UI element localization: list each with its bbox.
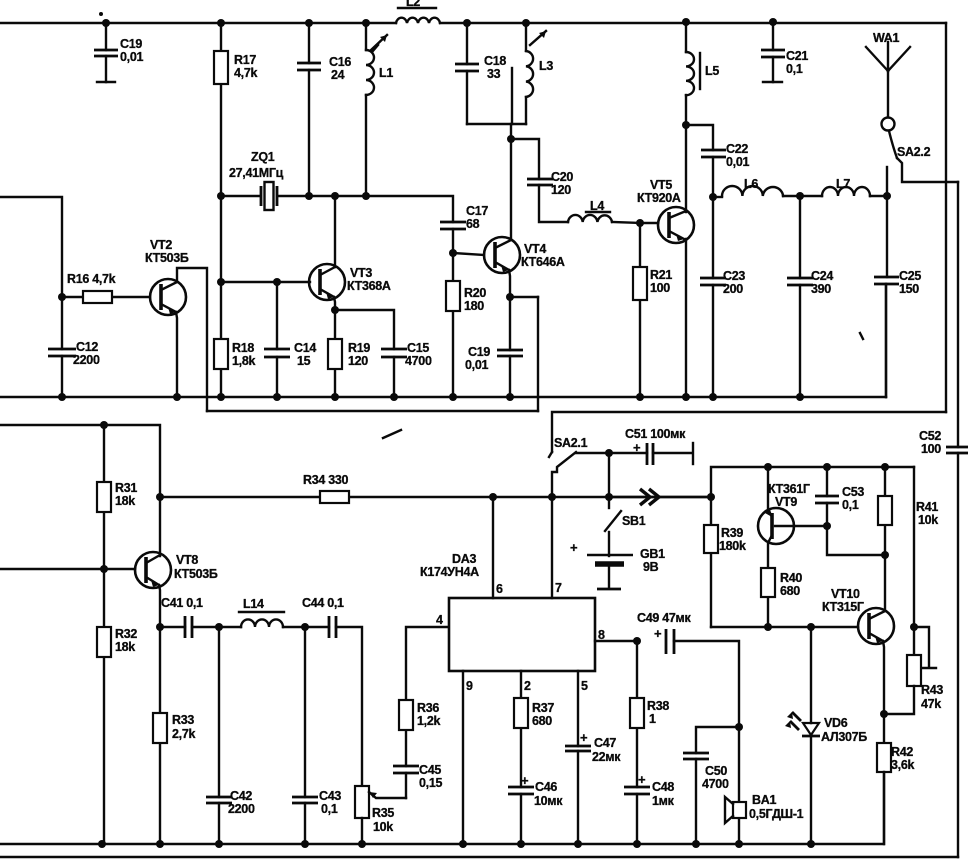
capacitor C23 (700, 197, 745, 397)
svg-text:C19: C19 (468, 345, 490, 359)
svg-text:R36: R36 (417, 701, 439, 715)
wire RX supply line y=497 (160, 496, 711, 498)
svg-text:150: 150 (899, 282, 919, 296)
svg-text:КТ361Г: КТ361Г (768, 482, 810, 496)
svg-text:4700: 4700 (405, 354, 432, 368)
svg-text:10мк: 10мк (534, 794, 563, 808)
node DA3 pin6 supply (489, 493, 497, 501)
svg-text:C16: C16 (329, 55, 351, 69)
svg-text:1,2k: 1,2k (417, 714, 440, 728)
resistor R41 10k (878, 467, 938, 555)
svg-text:10k: 10k (373, 820, 393, 834)
capacitor C22 (686, 125, 749, 197)
wire right RF rail vertical from top bus (945, 23, 947, 412)
node VD6 bottom (807, 840, 815, 848)
node L1 top (362, 19, 370, 27)
node R43 tap (910, 623, 918, 631)
svg-text:22мк: 22мк (592, 750, 621, 764)
node L1 bottom on crystal line (362, 192, 370, 200)
inductor L1 adjustable (366, 23, 393, 196)
svg-text:R41: R41 (916, 500, 938, 514)
wire base line of VT10 y=627 (711, 626, 858, 628)
transistor VT10 KT315G (822, 555, 894, 714)
resistor R32 (97, 569, 137, 844)
node L5 bottom C22 tee (682, 121, 690, 129)
svg-text:6: 6 (496, 582, 503, 596)
node amplifier rail column (707, 493, 715, 501)
node R21 bottom ground (636, 393, 644, 401)
capacitor C45 (393, 730, 442, 798)
resistor R18 (214, 282, 255, 397)
outer border bottom (0, 856, 958, 858)
transistor VT4 KT646A (484, 139, 565, 297)
svg-text:VT4: VT4 (524, 242, 546, 256)
resistor R38 1 (630, 641, 669, 787)
wire L6 to L7 (783, 195, 822, 197)
svg-text:R31: R31 (115, 481, 137, 495)
svg-text:C49 47мк: C49 47мк (637, 611, 691, 625)
node R17 top (217, 19, 225, 27)
wire C25 bottom to ground bus corner (885, 284, 887, 397)
svg-text:100: 100 (921, 442, 941, 456)
node C19 top (102, 19, 110, 27)
svg-text:680: 680 (532, 714, 552, 728)
wire left line to VT8 collector (0, 425, 160, 556)
svg-text:L5: L5 (705, 64, 719, 78)
svg-text:0,01: 0,01 (120, 50, 143, 64)
switch SA2.1 (549, 436, 588, 497)
wire left input to R16 (0, 197, 62, 297)
svg-text:К174УН4А: К174УН4А (420, 565, 479, 579)
wire L14 to C44 (283, 626, 329, 628)
svg-text:R40: R40 (780, 571, 802, 585)
capacitor C16 (297, 23, 351, 196)
svg-text:L6: L6 (744, 177, 758, 191)
svg-text:C51 100мк: C51 100мк (625, 427, 686, 441)
node SA2.1 output (548, 493, 556, 501)
node C50 bottom (692, 840, 700, 848)
capacitor C52 100 on right border (919, 182, 968, 857)
node C16 top (305, 19, 313, 27)
svg-text:R43: R43 (921, 683, 943, 697)
resistor R31 (97, 425, 137, 569)
svg-text:GB1: GB1 (640, 547, 665, 561)
node C46 bottom (517, 840, 525, 848)
svg-text:SB1: SB1 (622, 514, 646, 528)
node R31 top (100, 421, 108, 429)
node C14 top (273, 278, 281, 286)
pushbutton SB1 (605, 497, 646, 556)
inductor L4 (568, 199, 612, 222)
transistor VT9 KT361G pnp (758, 467, 827, 568)
transistor VT5 KT920A (637, 125, 694, 397)
svg-text:390: 390 (811, 282, 831, 296)
resistor R36 (399, 627, 449, 730)
common bus bottom y=844 (0, 772, 884, 844)
svg-text:C45: C45 (419, 763, 441, 777)
wire VT4 emitter return vertical x=538 (537, 297, 539, 411)
svg-text:2: 2 (524, 679, 531, 693)
svg-text:C19: C19 (120, 37, 142, 51)
svg-text:47k: 47k (921, 697, 941, 711)
svg-text:+: + (580, 730, 588, 745)
wire top supply bus left of L2 (0, 22, 396, 24)
svg-text:0,1: 0,1 (842, 498, 859, 512)
wire TX rail horizontal y=412 to SA2.1 feed (552, 412, 946, 452)
wire VT9 base node to VT10 collector (827, 526, 885, 555)
antenna WA1 (866, 31, 910, 117)
node R41 bottom VT10 collector (881, 551, 889, 559)
svg-text:33: 33 (487, 67, 501, 81)
node R38 top pin8 (633, 637, 641, 645)
node C19b bottom (506, 393, 514, 401)
svg-text:C20: C20 (551, 170, 573, 184)
pin 7 wire (551, 497, 553, 598)
svg-text:R18: R18 (232, 341, 254, 355)
node crystal line left (217, 192, 225, 200)
svg-text:C21: C21 (786, 49, 808, 63)
svg-text:C42: C42 (230, 789, 252, 803)
resistor R33 (153, 627, 195, 844)
resistor R42 3,6k (877, 714, 914, 844)
IC DA3 K174UN4A (420, 552, 595, 671)
wire VT4 collector up to C18 L3 node (510, 124, 512, 139)
svg-text:L14: L14 (243, 597, 264, 611)
svg-text:C47: C47 (594, 736, 616, 750)
svg-text:27,41МГц: 27,41МГц (229, 166, 284, 180)
node C42 bottom (215, 840, 223, 848)
resistor R40 680 (761, 568, 802, 627)
inductor L2 (396, 0, 440, 23)
wire VT2 collector up and to TX keying line (177, 268, 207, 411)
node C15 bottom (390, 393, 398, 401)
node VT5 emitter ground (682, 393, 690, 401)
svg-text:C24: C24 (811, 269, 833, 283)
node C53 top (823, 463, 831, 471)
svg-text:4: 4 (436, 613, 443, 627)
svg-text:КТ368А: КТ368А (347, 279, 391, 293)
svg-text:R38: R38 (647, 699, 669, 713)
wire stub beside L3 (511, 68, 513, 124)
capacitor C18 (455, 23, 506, 124)
capacitor C14 (264, 282, 316, 397)
node C43 top (301, 623, 309, 631)
svg-text:0,1: 0,1 (321, 802, 338, 816)
resistor R19 (328, 310, 370, 397)
svg-text:C22: C22 (726, 142, 748, 156)
svg-text:WA1: WA1 (873, 31, 900, 45)
svg-text:0,01: 0,01 (726, 155, 749, 169)
wire R18 node to VT3 base (221, 281, 310, 283)
node SB1 top (605, 493, 613, 501)
svg-text:L1: L1 (379, 66, 393, 80)
svg-text:10k: 10k (918, 513, 938, 527)
svg-text:КТ503Б: КТ503Б (145, 251, 189, 265)
wire crystal line to C17 (309, 196, 453, 222)
node C48 bottom (633, 840, 641, 848)
node VT2 emitter ground (173, 393, 181, 401)
svg-text:24: 24 (331, 68, 345, 82)
capacitor C19 near VT4 (465, 297, 523, 397)
node C21 top (769, 18, 777, 26)
svg-text:SA2.2: SA2.2 (897, 145, 931, 159)
svg-text:C50: C50 (705, 764, 727, 778)
inductor L6 (713, 177, 783, 197)
svg-text:0,01: 0,01 (465, 358, 488, 372)
svg-text:18k: 18k (115, 494, 135, 508)
wire C20 branch from VT4 collector (511, 139, 539, 179)
svg-text:0,5ГДШ-1: 0,5ГДШ-1 (749, 807, 804, 821)
node crystal line at C16 (305, 192, 313, 200)
wire VT3 emitter to C15 (335, 310, 394, 349)
stray speck mid (860, 333, 863, 339)
capacitor C19 top-left 0,01 (94, 23, 143, 82)
svg-text:R16 4,7k: R16 4,7k (67, 272, 116, 286)
wire R17 bottom to R18 (220, 196, 222, 282)
svg-text:4,7k: 4,7k (234, 66, 257, 80)
svg-text:68: 68 (466, 217, 480, 231)
svg-text:C53: C53 (842, 485, 864, 499)
wire R43 column (913, 467, 915, 655)
svg-text:КТ503Б: КТ503Б (174, 567, 218, 581)
svg-text:R21: R21 (650, 268, 672, 282)
pin 6 wire (492, 497, 494, 598)
svg-text:1,8k: 1,8k (232, 354, 255, 368)
node R41 top (881, 463, 889, 471)
svg-text:C41 0,1: C41 0,1 (161, 596, 203, 610)
node R40 bottom (764, 623, 772, 631)
capacitor C17 (440, 204, 488, 253)
svg-text:2200: 2200 (73, 353, 100, 367)
capacitor C47 electrolytic on pin5 (565, 671, 621, 844)
svg-text:8: 8 (598, 628, 605, 642)
node R20 bottom (449, 393, 457, 401)
capacitor C41 0,1 (160, 596, 219, 638)
svg-text:180: 180 (464, 299, 484, 313)
capacitor C24 (787, 196, 833, 397)
resistor R16 4,7k (62, 272, 150, 303)
switch SA2.2 (887, 131, 958, 196)
svg-text:+: + (654, 626, 662, 641)
node R16 C12 (58, 293, 66, 301)
capacitor C20 (527, 170, 573, 222)
svg-text:ZQ1: ZQ1 (251, 150, 275, 164)
svg-text:C12: C12 (76, 340, 98, 354)
wire VT8 base line (0, 568, 135, 570)
svg-text:C25: C25 (899, 269, 921, 283)
svg-text:DA3: DA3 (452, 552, 476, 566)
wire base node to VT4 (453, 253, 484, 255)
capacitor C46 electrolytic (508, 773, 563, 844)
svg-text:VT10: VT10 (831, 587, 860, 601)
svg-text:VT3: VT3 (350, 266, 372, 280)
battery GB1 9V (570, 540, 665, 589)
svg-text:L2: L2 (406, 0, 420, 9)
svg-text:100: 100 (650, 281, 670, 295)
node R33 bottom (156, 840, 164, 848)
node base R31 R32 (100, 565, 108, 573)
inductor L14 with core (219, 597, 284, 627)
node C43 bottom (301, 840, 309, 848)
node C17 R20 VT4 base (449, 249, 457, 257)
node VT10 emitter R43 (880, 710, 888, 718)
capacitor C49 electrolytic 47mk (637, 611, 739, 727)
svg-text:КТ315Г: КТ315Г (822, 600, 864, 614)
svg-text:R35: R35 (372, 806, 394, 820)
node VT5 base R21 (636, 219, 644, 227)
svg-text:C23: C23 (723, 269, 745, 283)
capacitor C43 (292, 627, 341, 844)
node C50 BA1 tee (735, 723, 743, 731)
svg-text:R17: R17 (234, 53, 256, 67)
wire L4 to VT5 base (612, 222, 658, 223)
capacitor C51 electrolytic 100mk (576, 427, 693, 465)
node C14 bottom (273, 393, 281, 401)
node VT9 base C53 (823, 522, 831, 530)
svg-text:2,7k: 2,7k (172, 727, 195, 741)
svg-text:0,15: 0,15 (419, 776, 442, 790)
inductor L3 adjustable (526, 23, 553, 124)
svg-text:R32: R32 (115, 627, 137, 641)
svg-text:АЛ307Б: АЛ307Б (821, 730, 867, 744)
svg-text:2200: 2200 (228, 802, 255, 816)
resistor R21 (633, 223, 672, 397)
inductor L5 with core (686, 22, 719, 125)
svg-text:VD6: VD6 (824, 716, 848, 730)
node BA1 bottom (735, 840, 743, 848)
capacitor C50 4700 (683, 727, 739, 844)
node C47 bottom (574, 840, 582, 848)
node VT4 collector C20 tee (507, 135, 515, 143)
capacitor C42 (206, 627, 255, 844)
node VT8 emitter C41 tee (156, 623, 164, 631)
svg-text:+: + (638, 772, 646, 787)
svg-text:R37: R37 (532, 701, 554, 715)
svg-text:9В: 9В (643, 560, 659, 574)
capacitor C53 0,1 (815, 467, 864, 526)
crystal ZQ1 (222, 150, 309, 210)
svg-text:4700: 4700 (702, 777, 729, 791)
node C51 line SB1 column (605, 449, 613, 457)
potentiometer R35 10k (355, 786, 406, 844)
transistor VT2 KT503B (145, 238, 189, 315)
wire VT4 emitter branch to x538 (510, 296, 538, 298)
svg-text:C17: C17 (466, 204, 488, 218)
wire SB1 column from C51 line (608, 453, 610, 497)
resistor R20 (446, 253, 486, 397)
node L7 right antenna stub C25 (883, 192, 891, 200)
svg-text:1: 1 (649, 712, 656, 726)
svg-text:680: 680 (780, 584, 800, 598)
svg-text:C43: C43 (319, 789, 341, 803)
ground bus y=397 (0, 396, 886, 398)
svg-text:C14: C14 (294, 341, 316, 355)
node C42 top (215, 623, 223, 631)
capacitor C25 (874, 196, 921, 397)
wire R39 column and top rail (711, 467, 914, 525)
node C23 bottom (709, 393, 717, 401)
svg-text:C48: C48 (652, 780, 674, 794)
svg-text:+: + (570, 540, 578, 555)
node C12 bottom on ground bus (58, 393, 66, 401)
svg-text:C18: C18 (484, 54, 506, 68)
svg-text:VT8: VT8 (176, 553, 198, 567)
svg-text:1мк: 1мк (652, 794, 675, 808)
capacitor C48 electrolytic 1mk (624, 772, 675, 844)
svg-text:R34 330: R34 330 (303, 473, 349, 487)
svg-text:C52: C52 (919, 429, 941, 443)
node VT4 emitter (506, 293, 514, 301)
svg-text:R20: R20 (464, 286, 486, 300)
svg-text:15: 15 (297, 354, 311, 368)
node C24 bottom (796, 393, 804, 401)
resistor R17 (214, 23, 257, 196)
inductor L7 (822, 177, 887, 196)
node R35 bottom (358, 840, 366, 848)
svg-text:120: 120 (348, 354, 368, 368)
svg-text:SA2.1: SA2.1 (554, 436, 588, 450)
capacitor C44 0,1 (302, 596, 362, 786)
svg-text:R39: R39 (721, 526, 743, 540)
connector circle antenna (882, 118, 895, 131)
svg-text:9: 9 (466, 679, 473, 693)
svg-text:+: + (521, 773, 529, 788)
svg-text:R42: R42 (891, 745, 913, 759)
trimmer R43 47k (884, 627, 943, 714)
resistor R37 (514, 671, 554, 787)
svg-text:C44 0,1: C44 0,1 (302, 596, 344, 610)
connector chevrons supply line (640, 489, 659, 505)
pin 8 wire (595, 640, 637, 642)
capacitor C15 (381, 341, 432, 397)
svg-text:0,1: 0,1 (786, 62, 803, 76)
node L3 top (522, 19, 530, 27)
wire VT2 emitter to ground (176, 312, 177, 397)
capacitor C21 (761, 22, 808, 82)
transistor VT8 KT503B (135, 552, 218, 627)
LED VD6 AL307B (785, 627, 867, 844)
svg-text:VT5: VT5 (650, 178, 672, 192)
svg-text:7: 7 (555, 581, 562, 595)
wire C18 bottom to L3 bottom (467, 123, 526, 125)
node L5 top (682, 18, 690, 26)
svg-text:VT2: VT2 (150, 238, 172, 252)
stray mark small diagonal (383, 430, 401, 438)
speaker BA1 0,5GDSh-1 (725, 727, 804, 844)
svg-text:+: + (633, 440, 641, 455)
svg-text:200: 200 (723, 282, 743, 296)
node pin9 bottom (459, 840, 467, 848)
svg-text:18k: 18k (115, 640, 135, 654)
node R18 bottom (217, 393, 225, 401)
node C18 top (463, 19, 471, 27)
node C24 top (796, 192, 804, 200)
wire TX keying line y=411 (207, 410, 538, 412)
resistor R34 330 (303, 473, 349, 503)
transistor VT3 KT368A (309, 196, 391, 310)
svg-text:C46: C46 (535, 780, 557, 794)
node C22 bottom L6 (709, 193, 717, 201)
svg-text:L7: L7 (836, 177, 850, 191)
node R19 bottom (331, 393, 339, 401)
wire top supply bus right of L2 (440, 22, 946, 24)
svg-text:5: 5 (581, 679, 588, 693)
svg-text:3,6k: 3,6k (891, 758, 914, 772)
node VT9 emitter rail (764, 463, 772, 471)
svg-text:КТ920А: КТ920А (637, 191, 681, 205)
svg-text:VT9: VT9 (775, 495, 797, 509)
node VD6 top (807, 623, 815, 631)
